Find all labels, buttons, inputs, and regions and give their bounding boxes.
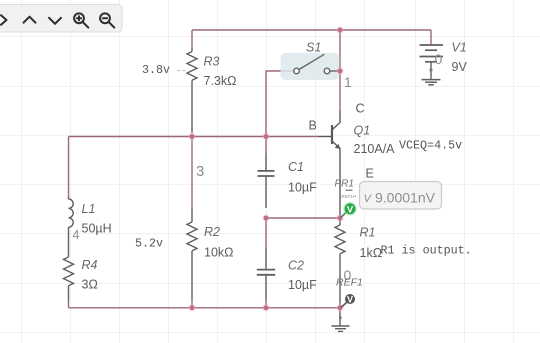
svg-text:B: B <box>309 119 317 133</box>
svg-text:VCEQ=4.5v: VCEQ=4.5v <box>399 139 462 153</box>
junction bottom R1 <box>336 304 343 311</box>
svg-text:V: V <box>347 295 353 305</box>
svg-text:4: 4 <box>73 228 80 242</box>
capacitor C1 <box>258 153 275 208</box>
ground (battery) <box>422 80 441 85</box>
junction base rail R3 <box>188 133 195 140</box>
junction node E left <box>262 214 269 221</box>
wire R1 bottom <box>339 303 341 308</box>
wire base rail <box>69 136 319 138</box>
svg-text:50µH: 50µH <box>82 222 112 236</box>
svg-text:R1 is output.: R1 is output. <box>381 244 472 258</box>
svg-text:R1: R1 <box>360 226 376 240</box>
resistor R3 <box>187 47 197 133</box>
svg-text:9V: 9V <box>452 60 468 74</box>
svg-text:V: V <box>347 205 354 216</box>
junction bottom R2 <box>188 304 195 311</box>
capacitor C2 <box>257 248 275 299</box>
svg-text:R2: R2 <box>204 225 220 239</box>
resistor R1 <box>335 218 345 303</box>
svg-text:PR1: PR1 <box>335 179 354 190</box>
wire R4 bottom <box>68 301 70 308</box>
wire bottom rail <box>69 307 341 309</box>
svg-text:9.0001nV: 9.0001nV <box>375 190 436 206</box>
probe PR1 underline mark <box>346 189 353 191</box>
wire left branch upper <box>68 137 70 198</box>
annotation 3.8v leader dash <box>177 70 186 72</box>
toolbar icon up chevron <box>24 17 36 23</box>
probe REF1 pointer <box>341 303 346 308</box>
wire top rail <box>192 29 431 31</box>
svg-text:C2: C2 <box>288 259 304 273</box>
probe REF1 (gray V) <box>345 294 355 304</box>
svg-text:1kΩ: 1kΩ <box>360 246 383 260</box>
resistor R4 <box>64 257 74 301</box>
svg-text:10µF: 10µF <box>288 181 317 195</box>
svg-text:REF1••: REF1•• <box>342 194 357 199</box>
svg-text:REF1: REF1 <box>336 277 363 289</box>
svg-text:5.2v: 5.2v <box>135 237 163 251</box>
svg-text:C: C <box>356 102 365 116</box>
toolbar <box>0 5 122 33</box>
probe PR1 (green V) <box>343 202 357 216</box>
junction bottom C2 <box>262 304 269 311</box>
svg-text:R3: R3 <box>204 55 220 69</box>
inductor L1 <box>69 197 74 257</box>
svg-text:0: 0 <box>435 51 443 67</box>
svg-text:10µF: 10µF <box>288 278 317 292</box>
wire mid horizontal node E <box>266 217 340 219</box>
junction switch contact <box>336 67 343 74</box>
svg-text:7.3kΩ: 7.3kΩ <box>204 74 237 88</box>
ground (R1 bottom) <box>332 308 350 332</box>
wire V1 drop <box>430 30 432 45</box>
svg-text:V1: V1 <box>452 41 467 55</box>
switch S1 <box>281 53 340 80</box>
toolbar icon partial chevron <box>1 15 7 25</box>
measurement box 9.0001nV <box>360 182 442 210</box>
wire C2 top <box>265 218 267 248</box>
svg-text:Q1: Q1 <box>354 124 371 138</box>
junction top rail / switch <box>336 26 343 33</box>
svg-text:3.8v: 3.8v <box>142 63 170 77</box>
wire switch left leg <box>266 71 294 137</box>
battery V1 <box>420 45 444 79</box>
resistor R2 <box>187 208 197 299</box>
svg-text:C1: C1 <box>288 160 304 174</box>
svg-text:1: 1 <box>344 74 352 90</box>
transistor Q1 <box>318 111 340 218</box>
toolbar icon zoom in <box>74 13 84 23</box>
wire R2 top <box>191 137 193 209</box>
toolbar icon down chevron <box>49 18 61 24</box>
svg-text:3: 3 <box>196 163 204 180</box>
junction base rail C1 <box>262 133 269 140</box>
svg-text:10kΩ: 10kΩ <box>204 246 234 260</box>
junction node E right <box>336 214 343 221</box>
wire R3 top lead <box>191 30 193 47</box>
svg-text:S1: S1 <box>306 41 321 55</box>
probe PR1 pointer <box>341 213 346 218</box>
svg-text:R4: R4 <box>82 258 98 272</box>
svg-text:L1: L1 <box>82 202 96 216</box>
svg-text:210A/A: 210A/A <box>354 142 396 156</box>
toolbar icon zoom out <box>100 13 110 23</box>
svg-text:3Ω: 3Ω <box>82 278 98 292</box>
wire switch/collector vertical <box>339 30 341 111</box>
svg-text:E: E <box>366 167 374 181</box>
wire C2 bottom <box>265 299 267 308</box>
wire R2 bottom <box>191 299 193 308</box>
wire C1 top <box>265 137 267 154</box>
